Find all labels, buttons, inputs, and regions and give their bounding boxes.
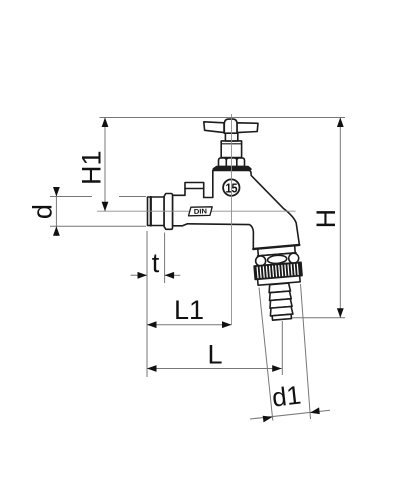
outlet assembly (tilted) [253, 243, 306, 321]
emblem circle 15 [223, 179, 239, 195]
boss inner line [185, 188, 204, 190]
arrowheads [53, 118, 344, 423]
handle hub [224, 119, 237, 133]
inlet thread [148, 197, 165, 226]
hose nipple barb 4 [270, 306, 293, 315]
handle left wing [204, 122, 224, 133]
packing cylinder [221, 141, 241, 158]
d1 dimension line [250, 410, 330, 419]
left ball [255, 256, 266, 267]
dimension labels [28, 150, 342, 412]
right ball [288, 253, 299, 264]
top extension line [100, 117, 346, 119]
handle right wing [237, 123, 258, 133]
svg-text:L1: L1 [174, 295, 204, 325]
H1 top arrow [102, 118, 109, 128]
t left arrow (outside, pointing right) [138, 272, 148, 279]
t dimension line with tails [131, 274, 147, 276]
svg-text:L: L [207, 340, 222, 370]
svg-text:DIN: DIN [194, 208, 207, 215]
stem [225, 133, 237, 141]
L left arrow [147, 365, 157, 372]
H dimension line [339, 118, 341, 318]
t right arrow (outside, pointing left) [165, 272, 175, 279]
H bottom arrow [337, 308, 344, 318]
hose nipple barb 1 [268, 283, 290, 293]
d dimension line [55, 187, 57, 236]
d1 left arrow (outside, pointing right) [263, 416, 273, 423]
H bottom extension line [292, 317, 345, 319]
svg-text:d: d [28, 204, 58, 219]
inlet axis centerline [97, 210, 296, 212]
H1 dimension line [104, 118, 106, 212]
d1 left extension line [259, 288, 273, 421]
svg-text:d1: d1 [270, 380, 302, 413]
t right extension line [164, 233, 166, 284]
thread chamfer line [150, 197, 152, 226]
knurl slits [257, 264, 298, 278]
knurled nut [254, 262, 302, 279]
svg-text:H1: H1 [77, 150, 107, 185]
L right extension line (outlet tip axis) [281, 321, 283, 375]
d bottom extension line [50, 225, 146, 227]
L dimension line [147, 368, 282, 370]
d bottom arrow (outside, pointing up) [53, 226, 60, 236]
ball ring band [258, 253, 297, 266]
centerlines [97, 114, 296, 325]
left extension line (inlet face) [146, 231, 148, 377]
collar [164, 194, 173, 230]
center oval [267, 255, 287, 265]
svg-text:H: H [311, 209, 341, 229]
L1 right arrow [222, 321, 232, 328]
bonnet flange [213, 167, 251, 170]
body outline [173, 171, 300, 250]
nut lower rim [258, 276, 301, 285]
L1 dimension line [147, 324, 232, 326]
hex nut [219, 158, 227, 167]
svg-text:t: t [152, 248, 160, 278]
H top arrow [337, 118, 344, 128]
nipple tip [272, 314, 291, 320]
d1 right arrow (outside, pointing left) [310, 407, 320, 414]
neck under cone [258, 244, 296, 256]
vertical centerline [231, 114, 233, 325]
hose nipple barb 3 [269, 299, 292, 308]
cone bottom edge (thick) [253, 245, 299, 249]
L right arrow [272, 365, 282, 372]
d1 right extension line [301, 284, 311, 419]
DIN plate [189, 207, 213, 216]
H1 bottom arrow [102, 202, 109, 212]
d top arrow (outside, pointing down) [53, 187, 60, 197]
hose nipple barb 2 [269, 291, 291, 301]
d top extension line (broken at H1 crossing) [50, 196, 92, 198]
L1 left arrow [147, 321, 157, 328]
